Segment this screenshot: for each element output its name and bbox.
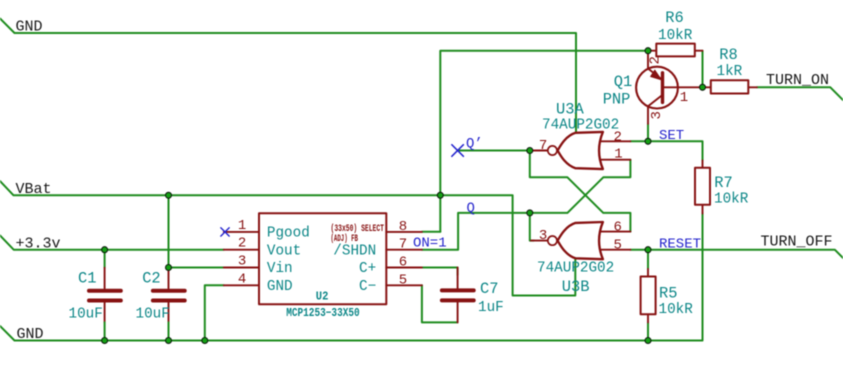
resistor R6 — [648, 9, 703, 57]
capacitor C7 — [442, 268, 504, 323]
resistor R5 — [641, 269, 694, 322]
body circle — [636, 67, 678, 109]
svg-text:Q’: Q’ — [466, 136, 483, 152]
resistor R7 — [695, 161, 749, 214]
svg-text:10kR: 10kR — [714, 192, 749, 208]
output bubble — [548, 146, 557, 155]
wire VBat rail — [0, 181, 575, 296]
pin 4 stub — [224, 284, 259, 286]
svg-text:7: 7 — [539, 138, 547, 154]
svg-text:R5: R5 — [659, 285, 677, 303]
svg-text:U2: U2 — [316, 289, 329, 303]
wire R5 top stub to RESET — [647, 250, 649, 269]
wire U2 pin5 to C7 bottom — [422, 285, 458, 322]
svg-text:3: 3 — [539, 228, 547, 244]
junction Q1 base/R8/R6 — [700, 84, 706, 90]
collector diagonal — [648, 95, 663, 106]
svg-text:ON=1: ON=1 — [413, 236, 447, 252]
pin 5 input stub — [598, 249, 631, 251]
svg-text:10uF: 10uF — [69, 307, 103, 323]
svg-text:Vout: Vout — [267, 243, 301, 259]
IC U2 MCP1253 — [221, 213, 447, 320]
junction C1 gnd — [102, 338, 108, 344]
svg-text:GND: GND — [16, 18, 43, 35]
wire U2 GND pin4 to ground — [205, 285, 224, 340]
svg-text:GND: GND — [267, 279, 293, 295]
NOR gate U3A (pointing left) — [530, 101, 631, 170]
junction C2/VBat — [166, 192, 172, 198]
svg-text:(ADJ) FB: (ADJ) FB — [331, 233, 359, 245]
svg-text:SET: SET — [659, 128, 684, 144]
svg-text:8: 8 — [399, 219, 407, 235]
wire Q1 collector to SET junction — [647, 124, 649, 142]
resistor R8 — [703, 46, 757, 94]
svg-text:10kR: 10kR — [658, 28, 693, 44]
no-connect X at pin 1 — [221, 228, 229, 236]
pin 6 input stub — [598, 231, 631, 233]
svg-text:U3B: U3B — [562, 278, 590, 296]
base bar — [661, 73, 664, 103]
wire Q' net: from no-connect to U3A output and cross-couple to U3B pin6 — [458, 151, 630, 232]
wire U2 pin6 to C7 top — [422, 268, 458, 276]
svg-text:6: 6 — [399, 255, 407, 271]
emitter diagonal — [648, 69, 663, 81]
output bubble — [548, 236, 557, 245]
svg-text:2: 2 — [648, 56, 664, 64]
wire RESET net: U3B pin5 to RESET line and TURN_OFF — [630, 250, 843, 258]
emitter pin (top) — [647, 51, 649, 69]
emitter arrow (PNP, pointing to base) — [651, 70, 662, 80]
svg-text:+3.3v: +3.3v — [16, 236, 61, 253]
junction SET — [645, 138, 651, 144]
svg-text:PNP: PNP — [603, 91, 631, 109]
junction R5 gnd — [645, 338, 651, 344]
wire VBat-to-R6/Q1 feed (y=50.7) — [440, 51, 648, 232]
svg-text:2: 2 — [238, 236, 246, 252]
svg-text:74AUP2G02: 74AUP2G02 — [537, 261, 614, 277]
svg-text:1kR: 1kR — [717, 64, 743, 80]
svg-text:TURN_ON: TURN_ON — [766, 72, 829, 89]
pin 7 output stub — [530, 150, 548, 152]
svg-text:RESET: RESET — [659, 237, 701, 253]
junction R6/Q1 emitter — [645, 48, 651, 54]
pin 1 input stub — [598, 159, 631, 161]
pin 1 stub — [224, 231, 259, 233]
svg-text:C2: C2 — [142, 270, 160, 288]
svg-text:TURN_OFF: TURN_OFF — [761, 234, 833, 251]
svg-text:1uF: 1uF — [478, 300, 504, 316]
capacitor C2 — [136, 268, 185, 341]
svg-text:Pgood: Pgood — [267, 226, 310, 242]
wire SET net: U3A pin2 to junction, Q1 collector, R7 — [630, 141, 702, 160]
svg-text:Q: Q — [467, 201, 475, 217]
svg-text:3: 3 — [649, 111, 665, 119]
junction Q' at U3A output — [527, 148, 533, 154]
pin 2 stub — [224, 249, 259, 251]
svg-text:1: 1 — [238, 218, 246, 234]
svg-text:/SHDN: /SHDN — [333, 243, 376, 259]
wire +3.3v rail — [0, 235, 224, 249]
collector pin (bottom) — [647, 106, 649, 124]
pin 3 output stub — [531, 240, 548, 242]
junction RESET — [645, 247, 651, 253]
junction C2 gnd — [166, 338, 172, 344]
svg-text:VBat: VBat — [16, 181, 52, 198]
svg-text:C+: C+ — [359, 261, 376, 277]
svg-text:10uF: 10uF — [136, 307, 170, 323]
svg-text:5: 5 — [614, 238, 622, 254]
wire C2/Vin branch from VBat — [169, 195, 224, 267]
wire GND bottom rail — [0, 213, 703, 341]
pin 3 stub — [224, 267, 259, 269]
svg-text:10kR: 10kR — [659, 302, 694, 318]
svg-text:6: 6 — [614, 220, 622, 236]
svg-text:1: 1 — [614, 146, 622, 162]
junction C2/Vin — [166, 265, 172, 271]
pin 8 stub — [386, 231, 422, 233]
svg-text:R6: R6 — [665, 9, 683, 27]
junction U2 gnd — [202, 338, 208, 344]
wire R5 bottom to GND — [647, 322, 649, 340]
svg-text:3: 3 — [238, 254, 246, 270]
svg-text:R7: R7 — [714, 174, 732, 192]
junction pin8 riser/VBat — [437, 192, 443, 198]
capacitor C1 — [69, 250, 121, 341]
gate body — [558, 132, 603, 169]
svg-text:1: 1 — [680, 90, 688, 106]
svg-text:MCP1253−33X50: MCP1253−33X50 — [286, 307, 360, 320]
svg-text:Q1: Q1 — [614, 73, 632, 91]
junction Q line — [527, 210, 533, 216]
NOR gate U3B (pointing left) — [531, 220, 630, 297]
wire R6 right to Q1 base junction — [702, 51, 704, 88]
svg-text:5: 5 — [399, 272, 407, 288]
junction C1/+3.3v — [102, 247, 108, 253]
svg-text:7: 7 — [399, 237, 407, 253]
svg-text:U3A: U3A — [556, 101, 584, 119]
pin 7 stub — [386, 249, 422, 251]
svg-text:C1: C1 — [78, 270, 96, 288]
wire Q net: U2 pin7 riser and Q line — [422, 160, 631, 250]
svg-text:C−: C− — [359, 279, 376, 295]
wire Q junction drop to U3B pin3 — [530, 213, 534, 241]
pin 6 stub — [386, 267, 422, 269]
transistor Q1 PNP — [603, 51, 703, 124]
svg-text:C7: C7 — [480, 280, 498, 298]
svg-text:4: 4 — [238, 271, 246, 287]
svg-text:R8: R8 — [719, 46, 737, 64]
pin 5 stub — [386, 284, 422, 286]
svg-text:Vin: Vin — [267, 261, 293, 277]
svg-text:74AUP2G02: 74AUP2G02 — [542, 118, 619, 134]
no-connect X at Q' — [452, 145, 464, 157]
wire TURN_ON from R8 — [757, 87, 843, 100]
gate body — [558, 222, 603, 259]
base pin to the right — [663, 86, 703, 88]
pin 2 input stub — [598, 140, 631, 142]
wire GND top rail — [0, 19, 576, 132]
svg-text:GND: GND — [17, 326, 44, 343]
wire U2 pin8 to VBat riser — [422, 231, 440, 233]
